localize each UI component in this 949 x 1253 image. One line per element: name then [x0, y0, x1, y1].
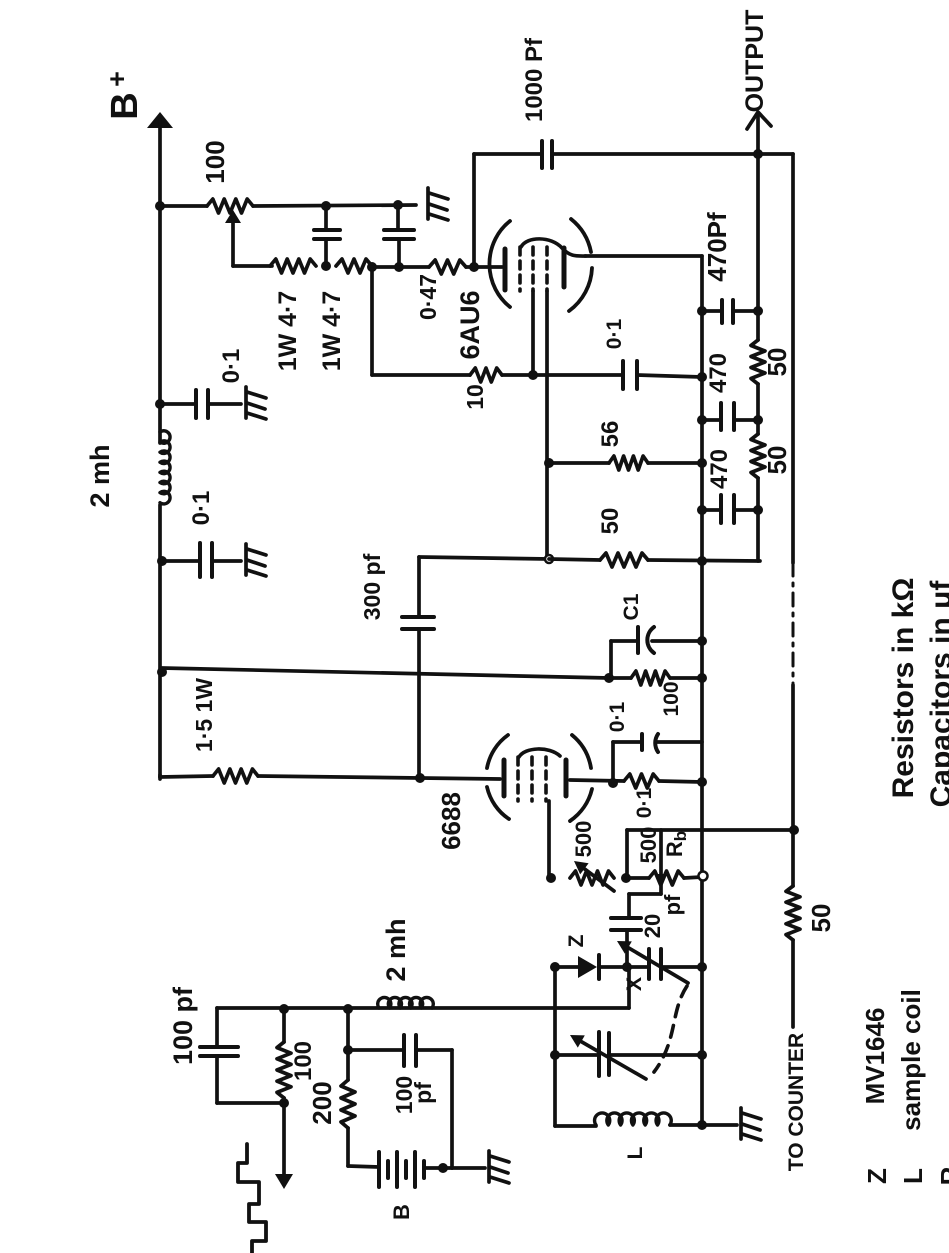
coupling dashed link — [654, 986, 687, 1072]
svg-text:50: 50 — [762, 348, 792, 377]
tube 6AU6 envelope right arc upper — [571, 219, 591, 252]
wire into 6AU6 cathode — [466, 265, 502, 269]
junction B+ cap branch2 — [157, 556, 167, 566]
capacitor 470 row420 — [702, 418, 721, 422]
svg-text:56: 56 — [597, 421, 624, 448]
capacitor 0.1 row742 — [611, 742, 615, 783]
pot wiper arrow — [225, 210, 241, 223]
junction diode-20pf — [622, 962, 632, 972]
variable X arrow — [622, 944, 688, 983]
svg-text:50: 50 — [762, 446, 792, 475]
svg-text:300 pf: 300 pf — [359, 553, 385, 620]
svg-text:20: 20 — [640, 914, 665, 938]
ground G1 top-right — [428, 188, 448, 220]
wire 6AU6 plate lead — [585, 254, 702, 258]
wire B+ corner — [158, 775, 162, 779]
wire row375 left — [372, 373, 470, 377]
ground G5 — [741, 1108, 761, 1140]
svg-text:50: 50 — [597, 508, 624, 535]
junction bias tee — [789, 825, 799, 835]
tube 6AU6 plate top curve — [521, 239, 586, 256]
resistor 10 — [470, 368, 502, 382]
resistor 50 row560 — [600, 553, 648, 567]
junction B+ top row — [155, 201, 165, 211]
potentiometer 500 (variable) — [570, 871, 614, 885]
wire battery left — [348, 1166, 379, 1167]
tube 6688 cathode bar — [502, 760, 507, 796]
resistor 50 counter — [786, 886, 800, 940]
svg-text:1·5 1W: 1·5 1W — [191, 678, 217, 752]
junction C1 node — [604, 673, 614, 683]
capacitor 20 pf — [611, 916, 641, 920]
junction mid row311 — [753, 306, 763, 316]
svg-text:0·1: 0·1 — [633, 788, 656, 819]
wire row777 — [258, 776, 500, 779]
wire to counter — [791, 940, 795, 1027]
resistor 100 row677 — [631, 671, 670, 685]
svg-text:0·1: 0·1 — [606, 702, 629, 733]
junction cap2 top — [393, 200, 403, 210]
capacitor 1000 Pf — [540, 141, 544, 168]
capacitor screen bypass 2 — [396, 205, 400, 230]
junction row777-300pf — [415, 773, 425, 783]
wire 4.7-node down — [370, 267, 374, 375]
wire right bus dashed segment — [792, 563, 795, 685]
wire diode row b — [599, 965, 648, 969]
tube 6AU6 envelope left arc — [489, 221, 510, 307]
wire battery right — [424, 1166, 452, 1170]
tube 6AU6 cathode bar — [503, 249, 508, 290]
svg-text:2 mh: 2 mh — [381, 918, 411, 981]
wire grid to top — [472, 154, 476, 267]
junction bus row377 — [697, 372, 707, 382]
junction 200-cap — [343, 1045, 353, 1055]
tube 6688 plate bar — [564, 760, 569, 796]
junction input bottom — [279, 1098, 289, 1108]
capacitor trimmer row1055 — [597, 1032, 601, 1076]
wire Rb wiper — [659, 830, 663, 894]
wire drive y1008 — [217, 1006, 629, 1010]
wire row463 right — [648, 461, 702, 465]
B+ supply arrow — [147, 112, 173, 128]
wire row375 right — [637, 375, 702, 377]
svg-text:2 mh: 2 mh — [85, 444, 115, 507]
battery B — [377, 1152, 381, 1187]
tube 6688 envelope left arc lower — [487, 787, 509, 819]
diode Z varactor — [578, 956, 597, 978]
wire row560 mid — [549, 559, 600, 560]
svg-text:0·47: 0·47 — [415, 274, 441, 320]
wire row677 right — [670, 676, 702, 680]
wire top right segment — [552, 152, 793, 156]
resistor 0.47 — [429, 260, 466, 274]
junction Rb bus open — [699, 872, 708, 881]
wire tank bottom left — [555, 1124, 596, 1128]
svg-text:L: L — [898, 1168, 928, 1184]
tube 6688 envelope right arc upper — [572, 735, 591, 768]
svg-text:100: 100 — [660, 681, 683, 716]
wire row560 right — [648, 560, 760, 561]
svg-text:470: 470 — [705, 353, 732, 393]
tube 6688 envelope right arc lower — [570, 789, 592, 821]
wire row1055 a — [555, 1053, 599, 1057]
svg-text:6AU6: 6AU6 — [455, 290, 485, 359]
junction row560 node — [545, 555, 553, 563]
svg-text:100 pf: 100 pf — [168, 986, 198, 1065]
svg-text:L: L — [624, 1146, 647, 1159]
junction screen right — [367, 262, 377, 272]
junction bus row420 — [697, 415, 707, 425]
svg-text:6688: 6688 — [436, 792, 466, 850]
capacitor 470Pf — [702, 309, 722, 313]
junction drive 100res — [279, 1004, 289, 1014]
junction mid row420 — [753, 415, 763, 425]
capacitor 100 pf bias — [348, 1048, 404, 1052]
inductor 2mh coupling — [378, 997, 434, 1008]
svg-text:0·1: 0·1 — [603, 319, 626, 350]
svg-text:500: 500 — [636, 827, 661, 864]
wire right bus lower — [791, 685, 795, 886]
junction screen mid — [321, 261, 331, 271]
OUTPUT arrow — [756, 114, 760, 154]
junction B+ cap branch1 — [155, 399, 165, 409]
tube 6AU6 envelope right arc lower — [569, 268, 592, 311]
svg-text:R: R — [935, 1166, 949, 1185]
resistor 56 — [609, 456, 648, 470]
resistor 100 (pot) — [207, 199, 253, 213]
junction battery-ground — [438, 1163, 448, 1173]
wire mid bus seg1 — [756, 154, 760, 340]
resistor 4.7 1W second — [336, 259, 372, 273]
svg-text:0·1: 0·1 — [218, 349, 245, 384]
resistor 100 input — [282, 1009, 286, 1042]
wire row560 left — [419, 557, 549, 559]
svg-text:MV1646: MV1646 — [860, 1008, 890, 1105]
wire row375 mid — [502, 373, 623, 377]
junction cap1 top — [321, 201, 331, 211]
junction bus C1 — [697, 636, 707, 646]
svg-text:pf: pf — [410, 1082, 436, 1104]
junction bus row561 — [697, 556, 707, 566]
wire mid bus seg2 — [756, 384, 760, 434]
resistor 50 ladder2 — [751, 434, 765, 478]
svg-text:470Pf: 470Pf — [702, 212, 732, 282]
junction pot row left — [546, 873, 556, 883]
capacitor 0.1 branch1 — [160, 402, 196, 406]
svg-text:50: 50 — [806, 904, 836, 933]
wire top row left — [160, 204, 207, 208]
ground G4 — [489, 1151, 509, 1183]
svg-text:OUTPUT: OUTPUT — [741, 10, 769, 113]
capacitor 0.1 branch2 — [162, 559, 200, 563]
junction 0.47 left — [394, 262, 404, 272]
junction B+ long wire — [157, 667, 167, 677]
wire tank bottom right — [670, 1123, 702, 1127]
svg-text:sample coil: sample coil — [896, 989, 926, 1131]
tube 6688 envelope left arc upper — [487, 735, 508, 768]
wire B+ rail lower — [158, 505, 162, 777]
inductor L sample coil — [595, 1113, 672, 1125]
wire 6AU6 internal down a — [531, 291, 535, 375]
wire pot mid — [626, 876, 649, 880]
junction tank mid-left — [550, 1050, 560, 1060]
resistor 4.7 1W first — [270, 259, 316, 273]
junction mid row510 — [753, 505, 763, 515]
svg-text:100: 100 — [290, 1041, 317, 1081]
junction row375 — [528, 370, 538, 380]
wire diode row a — [555, 965, 578, 969]
wire pot right — [684, 877, 702, 878]
resistor 200 — [346, 1009, 350, 1080]
capacitor 300 pf — [417, 557, 421, 617]
capacitor X variable — [647, 949, 651, 979]
svg-text:10: 10 — [462, 384, 488, 410]
resistor 0.1 row781 — [624, 774, 659, 788]
wire row463 left — [549, 461, 609, 465]
wire to ground G4 — [452, 1166, 485, 1170]
junction bus row311 — [697, 306, 707, 316]
svg-text:C1: C1 — [620, 593, 643, 620]
junction pot mid — [621, 873, 631, 883]
junction output tee — [753, 149, 763, 159]
wire tank left bus — [553, 967, 557, 1126]
wire to ground G5 — [702, 1123, 737, 1127]
svg-text:1W 4·7: 1W 4·7 — [274, 291, 302, 372]
wire 6AU6 internal down b — [545, 291, 549, 560]
junction tank top-left — [550, 962, 560, 972]
svg-text:pf: pf — [660, 894, 685, 915]
svg-text:Capacitors in μf: Capacitors in μf — [925, 580, 949, 808]
inductor 2mh (B+ rail choke) — [160, 431, 170, 504]
resistor 50 ladder1 — [751, 340, 765, 384]
wire row1055 b — [609, 1053, 702, 1057]
wire top left segment — [474, 152, 542, 156]
input arrow down — [282, 1103, 286, 1176]
wire grid row — [372, 265, 429, 269]
svg-text:100: 100 — [200, 140, 230, 183]
tube 6AU6 grid dashes — [518, 247, 522, 291]
junction row463 left node — [544, 458, 554, 468]
junction bus row781 — [697, 777, 707, 787]
ground G3 — [246, 544, 266, 576]
junction tank bottom — [697, 1120, 707, 1130]
wire input bottom — [217, 1101, 284, 1105]
svg-text:Z: Z — [862, 1168, 892, 1184]
svg-text:1000 Pf: 1000 Pf — [521, 37, 548, 122]
wire drive corner — [627, 967, 631, 1008]
svg-text:500: 500 — [571, 821, 596, 858]
svg-text:1W 4·7: 1W 4·7 — [318, 291, 346, 372]
resistor 1.5 1W — [213, 769, 258, 783]
capacitor 100 pf input — [215, 1008, 219, 1047]
junction bus row510 — [697, 505, 707, 515]
capacitor screen bypass 1 — [324, 206, 328, 230]
variable trimmer arrow — [575, 1038, 646, 1079]
svg-text:B: B — [104, 92, 146, 119]
svg-text:TO COUNTER: TO COUNTER — [785, 1033, 808, 1171]
wire right bus upper — [791, 154, 795, 563]
wire row677 gap — [609, 676, 631, 680]
wire bias y830 — [627, 828, 794, 832]
svg-text:+: + — [102, 71, 132, 87]
ground G2 — [246, 387, 266, 419]
capacitor 0.1 row375 — [621, 361, 625, 389]
tube 6AU6 plate bar — [562, 248, 567, 287]
tube 6688 grid dashes — [516, 757, 520, 801]
wire 6688 plate lead — [570, 780, 624, 781]
potentiometer Rb 500 — [649, 871, 684, 885]
wire mid bus seg3 — [756, 478, 760, 561]
wire bias corner down — [625, 830, 629, 878]
wire long y676 — [162, 668, 609, 678]
wire B+ rail upper — [158, 206, 162, 443]
svg-text:Resistors in kΩ: Resistors in kΩ — [887, 578, 920, 799]
svg-text:Z: Z — [565, 934, 588, 947]
wire plate bus down — [700, 256, 704, 1125]
wire bias cap right — [450, 1050, 454, 1168]
junction bus row677 — [697, 673, 707, 683]
staircase waveform symbol — [238, 1144, 266, 1253]
svg-text:0·1: 0·1 — [188, 491, 215, 526]
svg-text:200: 200 — [307, 1081, 337, 1124]
svg-text:470: 470 — [706, 449, 733, 489]
junction drive 200res — [343, 1004, 353, 1014]
junction grid node — [469, 262, 479, 272]
junction 6688 plate node — [608, 778, 618, 788]
wire screen row a — [233, 264, 272, 268]
wire 6688 grid down — [547, 801, 551, 878]
wire row781 right — [659, 781, 702, 782]
svg-text:B: B — [389, 1204, 414, 1220]
wire top row right — [253, 205, 416, 206]
svg-text:X: X — [623, 977, 646, 991]
junction bus row463 — [697, 458, 707, 468]
junction bus row967 — [697, 962, 707, 972]
junction bus row1055 — [697, 1050, 707, 1060]
capacitor 470 row510 — [702, 508, 721, 512]
tube 6688 plate top curve — [519, 749, 560, 757]
capacitor C1 — [609, 641, 613, 678]
